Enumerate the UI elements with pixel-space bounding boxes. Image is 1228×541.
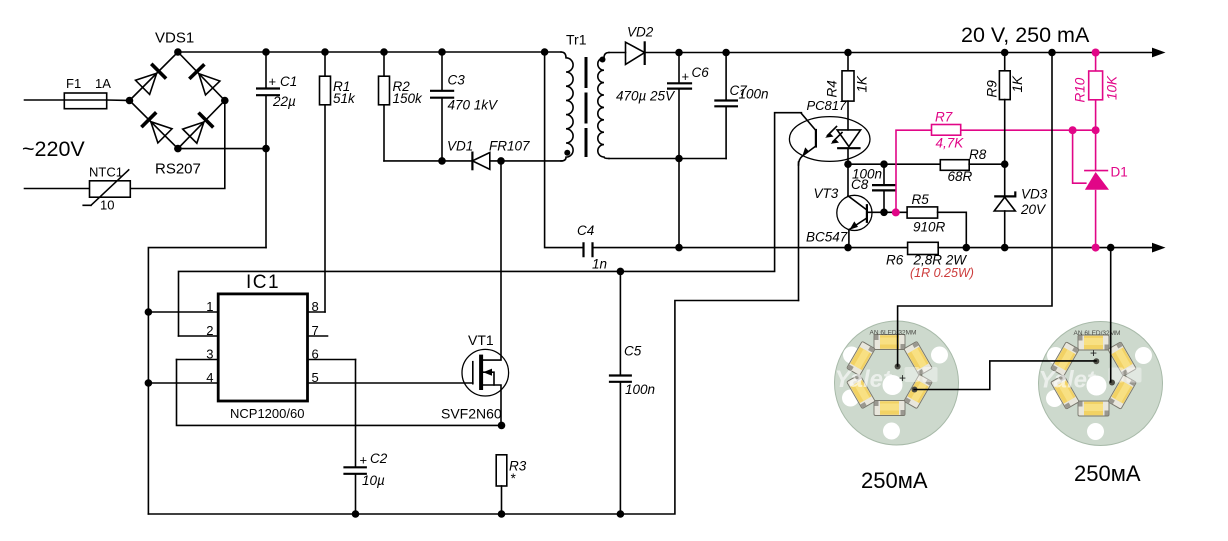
wire: AC input bottom [25, 188, 90, 190]
secondary polarity dot [600, 57, 606, 63]
svg-text:Tr1: Tr1 [566, 32, 587, 48]
resistor R1 51k [324, 52, 326, 76]
svg-text:C5: C5 [624, 344, 642, 359]
pin 7 [308, 335, 328, 337]
svg-text:100n: 100n [739, 87, 769, 102]
wire: pin3 current sense to R3 [177, 360, 502, 426]
optocoupler U2 PC817 [789, 98, 870, 165]
svg-text:7: 7 [312, 323, 319, 338]
channel bar [479, 355, 483, 390]
capacitor C8 100n [883, 164, 885, 184]
svg-text:+: + [1090, 346, 1097, 360]
svg-text:+: + [360, 453, 368, 468]
wire: module 1 plus feed from top rail [898, 53, 1052, 367]
substrate arrow [484, 372, 495, 385]
svg-text:SVF2N60: SVF2N60 [441, 406, 502, 422]
svg-text:F1: F1 [66, 76, 81, 91]
opto LED cathode lead [847, 148, 849, 164]
wire: primary ground bottom rail [148, 301, 798, 515]
svg-text:3: 3 [206, 347, 213, 362]
svg-text:+: + [269, 74, 277, 89]
thermistor NTC1 10 [90, 181, 131, 197]
svg-text:VD3: VD3 [1021, 187, 1048, 202]
capacitor C6 470u 25V [678, 53, 680, 83]
svg-text:1K: 1K [855, 75, 870, 93]
wire: HV+ top rail (primary side) [178, 51, 561, 53]
wire: snubber line to FR107 [384, 160, 471, 162]
wire: pin6 Vcc to C2 [355, 360, 357, 467]
resistor R8 68R [940, 160, 969, 171]
svg-text:1A: 1A [95, 76, 111, 91]
svg-text:10µ: 10µ [362, 473, 385, 488]
resistor R4 1K [847, 53, 849, 71]
svg-text:VT1: VT1 [468, 332, 494, 348]
svg-text:5: 5 [312, 370, 319, 385]
bridge rectifier VDS1 RS207 [126, 30, 229, 178]
LED module 1 (photo) [835, 321, 959, 493]
resistor R6 2,8R 2W [908, 242, 939, 254]
svg-text:6: 6 [312, 347, 319, 362]
svg-text:~220V: ~220V [22, 137, 85, 161]
wire: FR107 to primary winding bottom / drain node [490, 160, 562, 162]
svg-text:VT3: VT3 [814, 186, 839, 201]
svg-text:C4: C4 [577, 223, 594, 238]
wire: module 2 minus to output rail [1110, 248, 1112, 382]
primary winding [561, 52, 573, 161]
capacitor C4 1n [584, 242, 593, 257]
svg-text:C6: C6 [692, 65, 710, 80]
svg-text:+: + [682, 69, 690, 84]
arrow: top rail output [1152, 48, 1166, 58]
svg-text:+: + [899, 371, 906, 385]
svg-text:250мА: 250мА [1074, 461, 1141, 486]
svg-text:250мА: 250мА [861, 468, 928, 493]
svg-text:R9: R9 [985, 80, 1000, 98]
phototransistor collector [801, 114, 816, 131]
LED D1 (magenta) [1095, 130, 1097, 170]
wire: bridge bottom node to C1 column [178, 148, 266, 150]
svg-text:IC1: IC1 [246, 272, 280, 293]
opto LED anode lead [847, 101, 849, 130]
pin 4 [148, 382, 218, 384]
svg-text:R4: R4 [825, 80, 840, 97]
svg-text:51k: 51k [333, 91, 356, 106]
capacitor C1 22u [265, 52, 267, 87]
svg-text:1K: 1K [1010, 75, 1025, 93]
svg-text:1: 1 [206, 299, 213, 314]
resistor R2 150k [383, 52, 385, 76]
phototransistor emitter [799, 146, 816, 165]
wire: 20V output top rail [645, 52, 1156, 54]
LED module 2 (photo) [1039, 322, 1163, 487]
svg-text:VD1: VD1 [447, 139, 473, 154]
resistor R3 * [496, 455, 507, 486]
svg-text:NCP1200/60: NCP1200/60 [230, 406, 304, 421]
svg-text:*: * [510, 471, 516, 486]
svg-text:22µ: 22µ [272, 94, 296, 109]
diode VD2 [626, 42, 645, 64]
opto LED [837, 130, 861, 147]
svg-text:R6: R6 [886, 253, 904, 268]
svg-text:C8: C8 [851, 177, 869, 192]
svg-text:R5: R5 [912, 192, 930, 207]
svg-text:470µ 25V: 470µ 25V [616, 89, 676, 104]
transformer Tr1 [561, 32, 609, 161]
collector [848, 196, 867, 210]
secondary winding [598, 53, 609, 159]
wire: primary ground down-left to IC rail [148, 248, 266, 514]
resistor R7 4,7K (magenta) [896, 130, 932, 212]
wire: feedback node line [848, 163, 940, 165]
svg-text:VDS1: VDS1 [155, 30, 194, 47]
svg-text:2: 2 [206, 323, 213, 338]
IC IC1 NCP1200/60 (PWM controller) [218, 294, 307, 401]
svg-text:R10: R10 [1073, 77, 1088, 102]
wire: pin2 feedback line to optocoupler collector [179, 113, 802, 336]
svg-text:100n: 100n [625, 382, 655, 397]
zener VD3 20V [1004, 164, 1006, 196]
transformer core [585, 57, 588, 157]
phototransistor base bar [815, 129, 817, 148]
svg-text:68R: 68R [948, 169, 973, 184]
wire: opto emitter down [798, 162, 800, 301]
svg-text:R7: R7 [935, 110, 953, 125]
source lead [481, 385, 501, 425]
wire: secondary ground drop to output rail [678, 159, 680, 248]
svg-text:150k: 150k [393, 91, 424, 106]
capacitor C2 10u [343, 467, 367, 474]
svg-text:4,7K: 4,7K [936, 136, 965, 151]
pin 1 [148, 311, 218, 313]
svg-text:RS207: RS207 [155, 161, 201, 178]
svg-text:D1: D1 [1111, 165, 1128, 180]
diode VD1 FR107 [472, 153, 489, 170]
wire: fuse to bridge left node [107, 99, 130, 102]
wire: NTC to bridge right node [130, 101, 225, 189]
svg-text:20 V, 250 mA: 20 V, 250 mA [961, 23, 1090, 47]
wire: output minus rail [593, 247, 908, 249]
collector/emitter leads [847, 164, 850, 247]
svg-text:4: 4 [206, 370, 213, 385]
capacitor C3 470 1kV [441, 52, 443, 90]
base bar [866, 204, 868, 223]
pin 3 [177, 359, 219, 361]
svg-text:1n: 1n [592, 257, 607, 272]
svg-text:FR107: FR107 [489, 139, 530, 154]
wire: AC input top [25, 99, 65, 101]
svg-text:10K: 10K [1105, 75, 1120, 100]
base wire [867, 211, 907, 213]
svg-text:R8: R8 [969, 147, 987, 162]
svg-text:10: 10 [100, 198, 114, 213]
wire: secondary bottom [609, 158, 726, 160]
pin 6 [308, 359, 356, 361]
svg-text:20V: 20V [1020, 202, 1047, 217]
transistor VT3 BC547 [806, 164, 907, 247]
svg-text:8: 8 [312, 299, 319, 314]
resistor R10 10K (magenta) [1095, 53, 1097, 72]
light arrows [828, 127, 843, 142]
arrow: bottom rail output [1152, 243, 1166, 253]
svg-text:910R: 910R [913, 220, 946, 235]
resistor R5 910R [907, 207, 938, 218]
svg-text:C2: C2 [370, 451, 388, 466]
pin 2 [179, 335, 219, 337]
svg-text:VD2: VD2 [627, 25, 654, 40]
svg-text:470 1kV: 470 1kV [448, 98, 500, 113]
svg-text:C3: C3 [448, 73, 466, 88]
svg-text:PC817: PC817 [807, 98, 848, 113]
wire: secondary top to VD2 [609, 52, 626, 54]
emitter [850, 218, 867, 229]
pin 8 [308, 311, 326, 313]
resistor R9 1K [1004, 53, 1006, 71]
wire: Y-cap riser from top rail [545, 52, 584, 248]
gate plate [472, 362, 474, 384]
svg-text:(1R 0.25W): (1R 0.25W) [910, 266, 974, 280]
fuse F1 1A [64, 93, 106, 109]
capacitor C5 100n [619, 271, 621, 374]
wire: module1 minus to module2 plus [914, 361, 1096, 390]
drain lead [481, 161, 501, 360]
pin 5 [308, 382, 473, 384]
primary polarity dot [564, 150, 570, 156]
svg-text:C1: C1 [280, 74, 297, 89]
capacitor C7 100n [725, 53, 727, 101]
transistor VT1 SVF2N60 (MOSFET) [441, 161, 509, 426]
svg-text:BC547: BC547 [806, 230, 848, 245]
svg-text:NTC1: NTC1 [89, 165, 123, 180]
